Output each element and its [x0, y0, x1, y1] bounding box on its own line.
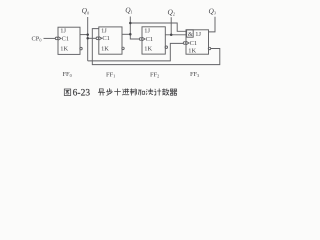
caption glyph shu (number) — [162, 89, 169, 96]
wire Q2 vertical — [170, 17, 172, 35]
pin label 1K of FF2 — [144, 45, 152, 52]
svg-text:C1: C1 — [62, 35, 69, 42]
component label FF3 — [190, 71, 199, 78]
FF3 clock bubble — [183, 42, 186, 45]
flip-flop FF1 box — [99, 27, 122, 54]
pin label 1J of FF3 — [195, 31, 201, 38]
pin label C1 of FF2 — [146, 36, 153, 43]
svg-text:1K: 1K — [144, 45, 152, 52]
wire Q0 vertical — [87, 17, 89, 61]
wire FF2 Q output to AND input — [165, 34, 186, 36]
node label Q0 — [82, 6, 90, 15]
pin label 1K of FF1 — [101, 46, 109, 53]
flip-flop FF3 box — [186, 30, 209, 54]
wire Q0 to FF1 clock — [88, 37, 96, 39]
component label FF2 — [150, 72, 159, 79]
FF1 Qbar bubble — [122, 47, 124, 49]
wire Q1 vertical — [130, 17, 139, 40]
junction dot Q0 at FF1 clock branch — [86, 37, 89, 40]
svg-text:1K: 1K — [60, 46, 68, 53]
pin label 1J of FF2 — [144, 27, 150, 34]
svg-text:1K: 1K — [101, 46, 109, 53]
caption glyph tu (picture) — [64, 89, 70, 96]
junction dot Q1 top branch — [129, 22, 132, 25]
FF2 dynamic clock wedge — [142, 37, 145, 41]
caption glyph zhi (system) — [130, 89, 136, 96]
svg-text:1J: 1J — [144, 27, 150, 34]
svg-text:C1: C1 — [146, 36, 153, 43]
pin label 1K of FF0 — [60, 46, 68, 53]
svg-text:FF1: FF1 — [106, 71, 115, 78]
caption glyph bu (step) — [106, 89, 112, 96]
flip-flop FF2 box — [142, 27, 165, 54]
svg-text:1J: 1J — [195, 31, 201, 38]
FF3 dynamic clock wedge — [186, 41, 189, 45]
wire FF1 Q output to node Q1 — [122, 33, 130, 35]
input label CP0 — [32, 36, 42, 43]
FF0 Qbar bubble — [80, 47, 82, 49]
pin label C1 of FF3 — [190, 40, 197, 47]
pin label C1 of FF0 — [62, 35, 69, 42]
wire FF3 Q output to Q3 label — [209, 17, 216, 32]
caption glyph yi (different) — [98, 89, 105, 95]
pin label ampersand of FF3 AND gate — [188, 31, 193, 38]
caption glyph ji (count) — [154, 89, 161, 96]
caption glyph fa (method) — [146, 89, 153, 95]
caption glyph jin (enter) — [122, 89, 129, 95]
flip-flop FF0 box — [58, 27, 80, 54]
node label Q1 — [125, 6, 132, 15]
node label Q3 — [209, 7, 216, 16]
svg-text:FF3: FF3 — [190, 71, 199, 78]
caption glyph qi (device) — [170, 89, 177, 95]
caption figure number 6-23 — [73, 89, 91, 99]
svg-text:C1: C1 — [102, 35, 109, 42]
caption glyph shi (ten) — [115, 89, 121, 96]
wire Q0 bottom run to FF3 clock — [88, 43, 184, 61]
svg-text:1K: 1K — [188, 48, 196, 55]
pin label C1 of FF1 — [102, 35, 109, 42]
FF0 clock bubble — [55, 37, 58, 40]
FF2 clock bubble — [139, 38, 142, 41]
component label FF0 — [63, 71, 72, 78]
FF0 dynamic clock wedge — [58, 37, 61, 41]
wire Q1 to AND input top run — [130, 23, 186, 31]
FF3 Qbar bubble — [208, 47, 210, 49]
pin label 1J of FF0 — [60, 27, 66, 34]
wire FF3 Qbar feedback to FF1 J input — [92, 29, 220, 65]
AND gate box inside FF3 — [187, 30, 194, 37]
svg-text:6-23: 6-23 — [73, 89, 91, 99]
junction dot Q0 at FF0 output — [86, 33, 89, 36]
junction dot Q2 at FF2 output — [170, 34, 173, 37]
pin label 1K of FF3 — [188, 48, 196, 55]
FF1 clock bubble — [96, 37, 99, 40]
FF1 dynamic clock wedge — [99, 37, 102, 41]
svg-text:FF0: FF0 — [63, 71, 72, 78]
junction dot Q1 at FF1 output — [129, 33, 132, 36]
component label FF1 — [106, 71, 115, 78]
svg-text:FF2: FF2 — [150, 72, 159, 79]
wire CP0 input — [44, 37, 56, 39]
node label Q2 — [168, 7, 175, 16]
svg-text:&: & — [188, 31, 193, 38]
svg-text:C1: C1 — [190, 40, 197, 47]
FF2 Qbar bubble — [165, 46, 167, 48]
pin label 1J of FF1 — [101, 27, 107, 34]
svg-text:1J: 1J — [101, 27, 107, 34]
svg-text:1J: 1J — [60, 27, 66, 34]
wire FF0 Q output to node Q0 — [80, 34, 88, 36]
caption glyph jia (add) — [138, 90, 144, 95]
